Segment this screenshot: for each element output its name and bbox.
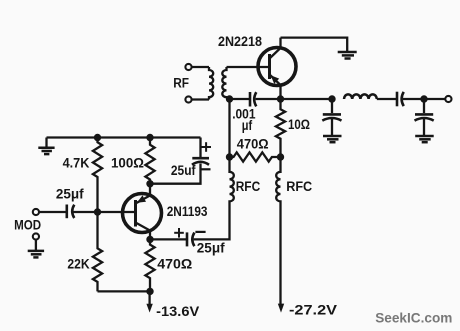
resistor R3 22K (93, 212, 102, 291)
capacitor C7 plate bottom curved (415, 118, 434, 121)
transistor Q2 emitter arrow (271, 75, 280, 84)
node N10 (277, 153, 284, 160)
ground G4 (323, 136, 342, 142)
transistor Q2 base bar (268, 54, 271, 79)
output terminal (445, 96, 451, 102)
wire L1 to C6 (377, 98, 396, 100)
svg-text:2N2218: 2N2218 (218, 34, 262, 49)
transistor Q2 collector lead (270, 38, 281, 59)
wire N5 to C3 (150, 238, 186, 240)
svg-text:SeekIC.com: SeekIC.com (375, 310, 452, 326)
inductor RFC left (230, 157, 234, 202)
minus sign C3 (195, 231, 205, 233)
transistor Q1 2N1193 circle (123, 194, 162, 233)
wire top-left horizontal bus (47, 136, 201, 138)
svg-text:2N1193: 2N1193 (167, 204, 208, 219)
node N4 (94, 208, 101, 215)
capacitor C3 plate right curved (192, 233, 194, 247)
capacitor C6 series plate left (396, 92, 399, 107)
resistor R4 470Ω vertical (145, 239, 154, 291)
wire N11 to C5 (331, 99, 333, 113)
capacitor C3 25μf interstage plate left (186, 232, 189, 246)
capacitor C1 25uf plate top (192, 157, 209, 160)
svg-text:100Ω: 100Ω (111, 155, 144, 170)
supply arrow -27.2V (278, 304, 284, 313)
svg-text:RFC: RFC (286, 179, 312, 194)
inductor L1 output (344, 94, 377, 99)
wire C5 to ground (331, 119, 333, 135)
wire ground stub top-left (45, 138, 47, 148)
transistor Q1 emitter arrow (137, 195, 146, 202)
plus sign C3 (174, 228, 184, 238)
wire RF bottom to T1 (192, 98, 210, 100)
ground G1 top-left (38, 148, 54, 154)
svg-text:RFC: RFC (236, 179, 261, 194)
MOD ground terminal (33, 233, 39, 239)
wire collector to ground (281, 38, 348, 52)
svg-text:25μf: 25μf (56, 186, 84, 201)
inductor RFC right (276, 157, 280, 202)
node N6 (146, 288, 153, 295)
svg-text:25uf: 25uf (171, 163, 196, 178)
wire bottom left (98, 290, 151, 292)
node N12 (420, 95, 427, 102)
MOD input terminal (33, 209, 39, 215)
svg-text:-13.6V: -13.6V (156, 304, 199, 319)
wire N7 to C4 (230, 98, 250, 100)
wire C1 bottom to node N3 (150, 164, 201, 184)
wire to C1 (199, 138, 201, 158)
transformer T1 primary winding (209, 67, 213, 100)
node N9 (226, 153, 233, 160)
resistor R5 10Ω (276, 99, 285, 157)
wire C6 to output (403, 98, 446, 100)
wire RF top to T1 (192, 66, 210, 68)
svg-text:4.7K: 4.7K (63, 156, 90, 171)
capacitor C2 25μf plate left (66, 205, 69, 219)
wire C2 to base Q1 (74, 211, 136, 213)
svg-text:10Ω: 10Ω (288, 117, 310, 132)
capacitor C6 plate right curved (402, 92, 404, 106)
node N1 (94, 134, 101, 141)
wire N12 to C7 (423, 99, 425, 113)
capacitor C4 .001μf plate left (249, 92, 252, 107)
wire RFC right down (279, 202, 281, 305)
minus sign C1 (200, 168, 210, 170)
svg-text:μf: μf (242, 118, 253, 133)
transformer T1 secondary winding (222, 67, 229, 99)
ground G5 (415, 136, 434, 142)
capacitor C7 shunt plate top (415, 113, 433, 116)
transistor Q1 emitter lead (136, 184, 151, 204)
svg-text:470Ω: 470Ω (237, 137, 269, 152)
wire T1 to base Q2 (227, 66, 270, 68)
svg-text:MOD: MOD (14, 218, 41, 233)
transistor Q1 base bar (134, 200, 137, 227)
capacitor C1 25uf plate bottom curved (192, 162, 209, 165)
plus sign C1 (201, 142, 211, 152)
transistor Q1 collector lead (136, 223, 151, 240)
node N3 (146, 180, 153, 187)
resistor R2 100Ω (145, 138, 154, 184)
svg-text:-27.2V: -27.2V (289, 303, 337, 318)
RF input terminal bottom (185, 96, 191, 102)
wire C7 to ground (423, 119, 425, 135)
RF input terminal top (185, 64, 191, 70)
capacitor C2 25μf plate right curved (72, 205, 74, 218)
capacitor C4 plate right curved (254, 92, 256, 106)
node N5 (146, 236, 153, 243)
supply arrow -13.6V (148, 291, 150, 305)
transistor Q2 emitter lead (270, 75, 281, 100)
node N2 (146, 134, 153, 141)
transistor Q2 2N2218 circle (258, 48, 296, 86)
resistor R6 470Ω horizontal (230, 152, 281, 161)
svg-text:RF: RF (173, 75, 189, 90)
wire ground stub MOD (35, 239, 37, 250)
capacitor C5 shunt plate top (323, 113, 341, 116)
svg-text:22K: 22K (67, 257, 90, 272)
resistor R1 4.7K (93, 138, 102, 213)
wire N7 down (228, 99, 230, 157)
node N11 (328, 95, 335, 102)
node N8 (277, 95, 284, 102)
wire C4 to node N8 (256, 98, 332, 100)
node N7 (226, 95, 233, 102)
wire MOD to C2 (39, 211, 66, 213)
ground G2 top right (338, 52, 357, 59)
capacitor C5 plate bottom curved (322, 118, 341, 121)
svg-text:25μf: 25μf (197, 241, 225, 256)
ground G3 below MOD (28, 251, 44, 258)
svg-text:470Ω: 470Ω (157, 256, 192, 271)
wire C3 to RFC rail (194, 202, 230, 239)
